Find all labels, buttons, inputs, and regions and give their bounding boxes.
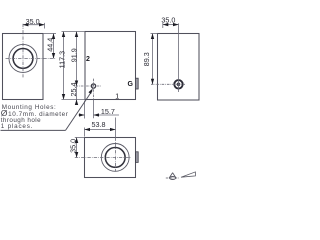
dim 53.8 dimension line: [85, 129, 116, 131]
centerline A horizontal: [6, 58, 57, 60]
centerline D vertical (dash-dot): [115, 138, 117, 172]
cone icon side lines: [169, 173, 176, 178]
svg-text:35.0: 35.0: [26, 17, 40, 26]
hole B extension line below: [93, 100, 95, 119]
dim 35.0 (A) dimension line: [23, 24, 45, 26]
dim 91.9 / 25.4 shared dimension line: [76, 32, 78, 105]
dim 35.0 (C) left extension line: [162, 23, 164, 28]
svg-text:1: 1: [115, 93, 119, 100]
mounting hole B: [91, 84, 95, 88]
dim 15.7 dimension line right tail: [94, 114, 120, 116]
hole B centerline vertical: [93, 79, 95, 100]
dim 35.0 (C) arrows: [163, 23, 169, 26]
dim 117.3 dimension line: [63, 32, 65, 100]
hole C inner dot: [177, 83, 181, 87]
top extension line B: [62, 31, 86, 33]
dim 53.8 arrows: [84, 128, 90, 131]
part outline A: [3, 34, 44, 100]
svg-text:35.0: 35.0: [69, 139, 78, 153]
svg-text:25.4: 25.4: [69, 83, 78, 97]
dim 117.3 arrows: [62, 31, 65, 37]
svg-text:117.3: 117.3: [58, 51, 67, 68]
svg-text:2: 2: [86, 56, 90, 63]
svg-text:35.0: 35.0: [161, 15, 175, 24]
dim 15.7 left extension line: [84, 101, 86, 119]
dim 35.0 (D) arrows: [75, 137, 78, 143]
centerline D horizontal: [75, 157, 131, 159]
hole B centerline horizontal: [76, 85, 102, 87]
cone icon centerline: [166, 177, 180, 179]
dim 44.4 dimension line: [53, 34, 55, 59]
centerline A vertical: [22, 24, 24, 78]
svg-text:91.9: 91.9: [70, 48, 79, 62]
dim 15.7 arrows (outside): [79, 113, 85, 116]
dim 89.3 dimension line: [152, 34, 154, 85]
connector tab D: [136, 152, 139, 163]
leader underline: [1, 129, 66, 131]
bottom extension line B: [62, 99, 86, 101]
dim 25.4 bottom arrow: [75, 99, 78, 105]
dim 35.0 (A) arrows: [23, 23, 29, 26]
leader diagonal: [66, 91, 93, 131]
dim 89.3 top extension line: [151, 33, 158, 35]
dim 44.4 top extension line: [43, 33, 56, 35]
cone side-view icon: [181, 172, 195, 177]
part outline C: [158, 34, 200, 101]
boss outer circle D: [101, 144, 129, 172]
dim 91.9 arrows: [75, 31, 78, 37]
dim 15.7 dimension line left tail: [78, 114, 84, 116]
part outline D: [85, 138, 136, 178]
svg-text:44.4: 44.4: [46, 38, 55, 52]
dim 53.8 left extension line: [84, 128, 86, 137]
svg-text:G: G: [127, 81, 133, 88]
svg-text:15.7: 15.7: [101, 107, 115, 116]
dim 35.0 (D) dimension line: [76, 138, 78, 158]
centerline D vertical / 53.8 extension: [115, 118, 117, 138]
dim 35.0 (C) dimension line: [163, 24, 179, 26]
dim 35.0 (D) top extension line: [75, 137, 85, 139]
leader arrowhead: [88, 88, 92, 94]
hole inner circle A: [13, 49, 33, 69]
dim 44.4 arrows: [52, 33, 55, 39]
part outline B: [85, 32, 136, 100]
dim 35.0 (A) right extension line: [44, 23, 46, 29]
svg-text:53.8: 53.8: [92, 120, 106, 129]
svg-text:89.3: 89.3: [142, 52, 151, 66]
hole inner circle D: [105, 148, 125, 168]
svg-text:1 places.: 1 places.: [1, 123, 33, 130]
boss outer circle A: [9, 44, 37, 72]
hole C centerline horizontal: [151, 83, 185, 85]
cone icon base ellipse: [170, 177, 176, 180]
svg-text:Mounting Holes:: Mounting Holes:: [2, 104, 57, 111]
hole C vertical extension line: [178, 23, 180, 92]
hole C outer ring: [174, 80, 182, 88]
connector tab B: [135, 78, 138, 89]
dim 89.3 arrows: [151, 33, 154, 39]
